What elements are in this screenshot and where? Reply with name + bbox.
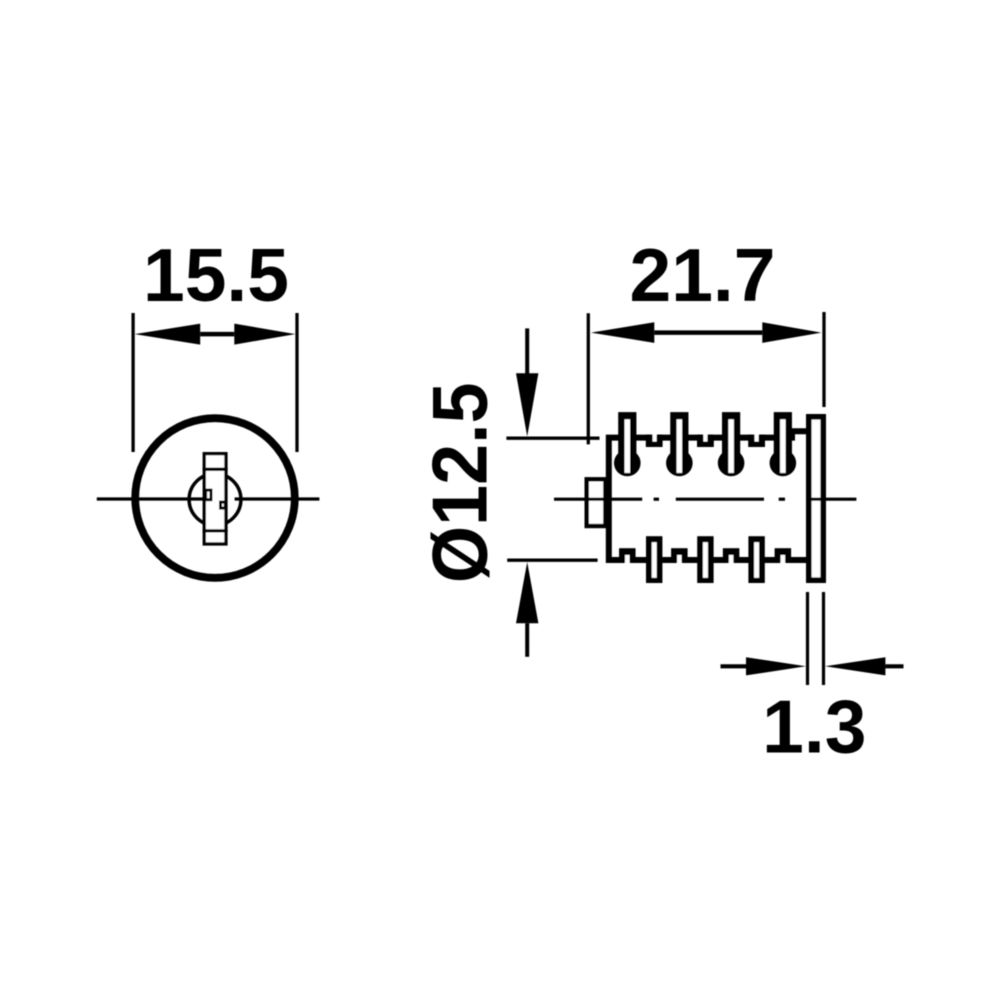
svg-text:1.3: 1.3 <box>762 685 866 769</box>
svg-text:21.7: 21.7 <box>630 233 776 317</box>
svg-text:15.5: 15.5 <box>143 233 289 317</box>
svg-text:Ø12.5: Ø12.5 <box>417 382 504 583</box>
